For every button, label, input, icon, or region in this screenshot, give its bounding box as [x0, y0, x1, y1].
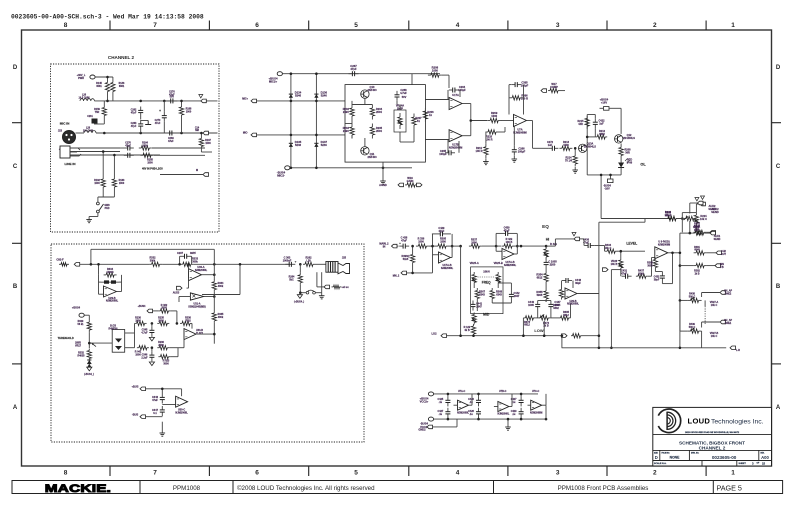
svg-text:.1u: .1u — [512, 413, 516, 416]
svg-text:10006: 10006 — [107, 271, 115, 274]
svg-text:300k: 300k — [192, 260, 198, 263]
svg-text:COMP: COMP — [550, 85, 558, 89]
svg-text:1uF: 1uF — [599, 122, 604, 125]
svg-text:VR25-B: VR25-B — [494, 261, 503, 265]
svg-text:1000uF: 1000uF — [283, 259, 292, 262]
svg-text:SEND: SEND — [714, 238, 721, 241]
svg-text:4.7uF: 4.7uF — [400, 91, 407, 95]
svg-text:10k C: 10k C — [700, 217, 707, 221]
svg-text:OL: OL — [640, 163, 646, 167]
svg-text:NONE: NONE — [670, 456, 681, 460]
svg-text:100pF: 100pF — [521, 84, 529, 88]
svg-text:6081: 6081 — [96, 85, 102, 88]
svg-text:THRESHOLD: THRESHOLD — [58, 336, 74, 340]
svg-text:2N4403: 2N4403 — [367, 155, 377, 159]
svg-text:D: D — [655, 455, 658, 460]
svg-text:GND2: GND2 — [418, 428, 426, 432]
svg-text:.1u: .1u — [512, 401, 516, 404]
svg-text:1006: 1006 — [440, 240, 446, 243]
svg-text:MIC-: MIC- — [243, 132, 248, 135]
svg-text:44R: 44R — [578, 123, 583, 126]
svg-text:6: 6 — [255, 470, 259, 477]
svg-text:1000: 1000 — [142, 144, 148, 147]
svg-text:+: + — [159, 109, 161, 113]
svg-text:5246: 5246 — [321, 94, 327, 98]
svg-text:NJM2068L: NJM2068L — [106, 300, 119, 303]
svg-text:LO2: LO2 — [431, 332, 437, 336]
svg-text:100 R: 100 R — [521, 97, 528, 101]
svg-text:.1u: .1u — [439, 401, 443, 404]
svg-text:B: B — [776, 284, 781, 290]
svg-text:R4NF06: R4NF06 — [109, 327, 119, 330]
svg-text:1006: 1006 — [471, 241, 477, 244]
svg-text:R 42k: R 42k — [550, 242, 557, 246]
svg-text:6040: 6040 — [665, 214, 671, 217]
svg-text:47pF: 47pF — [131, 111, 137, 114]
svg-text:NJM2068L: NJM2068L — [175, 411, 188, 414]
svg-text:5kC: 5kC — [289, 278, 294, 281]
svg-text:3005: 3005 — [647, 264, 653, 267]
svg-text:4: 4 — [456, 22, 460, 29]
svg-text:.1u: .1u — [469, 401, 473, 404]
svg-text:SHEET: SHEET — [739, 463, 747, 465]
svg-text:+BUS: +BUS — [132, 385, 139, 389]
svg-text:3: 3 — [556, 22, 560, 29]
svg-text:100pF: 100pF — [439, 152, 447, 156]
svg-text:47uF: 47uF — [401, 239, 407, 242]
svg-text:10k: 10k — [694, 229, 699, 232]
svg-text:C287: C287 — [177, 252, 184, 255]
svg-text:+BUS4: +BUS4 — [138, 305, 146, 308]
svg-text:J25: J25 — [342, 257, 347, 260]
svg-text:6343: 6343 — [479, 293, 485, 296]
svg-text:0023605-00: 0023605-00 — [712, 455, 737, 460]
svg-text:SSM2164S(MB): SSM2164S(MB) — [188, 305, 206, 308]
svg-text:2004: 2004 — [376, 129, 382, 133]
svg-text:2490: 2490 — [343, 110, 349, 114]
svg-text:L38: L38 — [306, 259, 311, 262]
svg-text:2: 2 — [653, 470, 657, 477]
svg-text:LOUD: LOUD — [688, 417, 711, 426]
svg-text:NJM2068M: NJM2068M — [530, 412, 542, 415]
svg-text:300k: 300k — [150, 260, 156, 263]
svg-text:4.7uF: 4.7uF — [141, 331, 148, 334]
svg-text:R4035: R4035 — [77, 354, 85, 357]
svg-text:1000: 1000 — [563, 144, 569, 147]
svg-text:51k5: 51k5 — [403, 258, 409, 261]
svg-text:CHANNEL 2: CHANNEL 2 — [108, 55, 135, 60]
svg-text:16220 WOOD-RED ROAD NE WOODINV: 16220 WOOD-RED ROAD NE WOODINVILLE, WA 9… — [685, 431, 740, 434]
svg-text:NJM2068L: NJM2068L — [457, 412, 469, 415]
svg-text:1000: 1000 — [94, 182, 100, 185]
svg-text:MIC IN: MIC IN — [60, 122, 70, 126]
svg-text:1uF: 1uF — [548, 144, 553, 147]
svg-text:2008: 2008 — [161, 307, 167, 310]
svg-text:NJM2068L: NJM2068L — [441, 267, 454, 270]
svg-text:3302: 3302 — [553, 307, 559, 310]
svg-text:LINE IN: LINE IN — [64, 162, 76, 166]
svg-text:D: D — [776, 65, 781, 71]
svg-text:GAIN: GAIN — [407, 179, 414, 183]
svg-text:4: 4 — [456, 470, 460, 477]
svg-text:20k8: 20k8 — [638, 272, 644, 275]
svg-text:8: 8 — [64, 470, 68, 477]
svg-text:1006: 1006 — [135, 319, 141, 322]
svg-text:0.1: 0.1 — [153, 412, 157, 415]
svg-text:5: 5 — [354, 22, 358, 29]
svg-text:VR17: VR17 — [75, 344, 82, 347]
svg-text:7: 7 — [153, 22, 157, 29]
svg-text:C14: C14 — [195, 127, 200, 130]
svg-text:PPM1008: PPM1008 — [173, 485, 201, 492]
svg-text:47uF: 47uF — [621, 272, 627, 275]
svg-text:-16V: -16V — [604, 187, 610, 191]
svg-text:PPM1008 Front PCB Assemblies: PPM1008 Front PCB Assemblies — [558, 485, 649, 492]
svg-text:39pF: 39pF — [575, 282, 581, 285]
svg-text:48V IN PHB-L2G8: 48V IN PHB-L2G8 — [142, 168, 163, 171]
svg-text:+16V: +16V — [601, 101, 607, 105]
svg-text:1006: 1006 — [418, 240, 424, 243]
svg-text:100 R: 100 R — [476, 149, 483, 153]
svg-text:EQ: EQ — [542, 224, 549, 229]
svg-text:CH2-F: CH2-F — [56, 259, 64, 262]
svg-text:AUX3: AUX3 — [173, 292, 180, 295]
svg-text:10k C: 10k C — [711, 304, 718, 307]
svg-text:MIC2-: MIC2- — [277, 174, 285, 178]
svg-text:100 R: 100 R — [486, 138, 493, 142]
svg-text:PWR: PWR — [78, 77, 84, 80]
svg-text:2490: 2490 — [343, 129, 349, 133]
svg-text:FB: FB — [720, 266, 723, 269]
svg-text:10k C: 10k C — [711, 335, 718, 338]
svg-text:2N4403LS: 2N4403LS — [623, 137, 635, 140]
svg-text:U7B-C: U7B-C — [499, 390, 507, 393]
svg-text:500 C: 500 C — [689, 295, 696, 298]
svg-text:1000: 1000 — [432, 69, 438, 73]
svg-text:IN: IN — [383, 245, 386, 248]
svg-text:C: C — [13, 164, 18, 170]
svg-text:PAD: PAD — [105, 207, 110, 210]
svg-text:39PF: 39PF — [190, 252, 196, 255]
svg-text:10k B: 10k B — [611, 263, 618, 266]
svg-text:VCC2+: VCC2+ — [420, 400, 429, 404]
svg-text:HI: HI — [546, 238, 550, 242]
svg-text:PAGE 5: PAGE 5 — [717, 484, 742, 493]
svg-text:D-86: D-86 — [627, 161, 633, 164]
svg-text:NJM2068M: NJM2068M — [658, 243, 670, 246]
svg-text:U17A: U17A — [452, 93, 459, 97]
svg-text:1: 1 — [731, 22, 735, 29]
svg-text:B: B — [13, 284, 18, 290]
svg-text:SEND: SEND — [708, 207, 715, 211]
svg-text:4k B: 4k B — [464, 329, 469, 332]
svg-text:2.2uF: 2.2uF — [141, 356, 148, 359]
svg-text:MN_2: MN_2 — [393, 275, 400, 278]
svg-text:6081: 6081 — [119, 85, 125, 88]
svg-text:3: 3 — [556, 470, 560, 477]
svg-text:1000: 1000 — [205, 142, 211, 145]
svg-text:6812: 6812 — [537, 276, 543, 280]
svg-text:NJM2068L: NJM2068L — [195, 269, 208, 272]
svg-text:2200: 2200 — [550, 263, 556, 267]
svg-text:ONE2: ONE2 — [725, 292, 732, 295]
svg-text:D: D — [13, 65, 18, 71]
svg-text:7502: 7502 — [185, 319, 191, 322]
svg-text:0023605-00-A00-SCH.sch-3 - Wed: 0023605-00-A00-SCH.sch-3 - Wed Mar 19 14… — [11, 14, 204, 21]
svg-text:+BUS4: +BUS4 — [72, 307, 81, 310]
svg-text:56 k1: 56 k1 — [78, 323, 85, 326]
svg-text:47pF: 47pF — [350, 67, 357, 71]
svg-text:FSCM NO.: FSCM NO. — [662, 452, 671, 454]
svg-text:1000: 1000 — [147, 161, 153, 164]
svg-text:MIC+: MIC+ — [242, 98, 248, 101]
svg-text:Technologies Inc.: Technologies Inc. — [711, 419, 764, 426]
svg-text:A00: A00 — [761, 455, 769, 460]
svg-text:.1u: .1u — [439, 413, 443, 416]
svg-text:.1u: .1u — [469, 413, 473, 416]
svg-text:NJM2068M: NJM2068M — [513, 131, 526, 135]
svg-text:2847: 2847 — [514, 295, 520, 298]
svg-text:MIC2+: MIC2+ — [269, 80, 278, 84]
svg-text:47pF: 47pF — [438, 230, 444, 233]
svg-text:500 C: 500 C — [689, 326, 696, 329]
svg-text:2: 2 — [653, 22, 657, 29]
svg-text:7: 7 — [153, 470, 157, 477]
svg-text:50V: 50V — [170, 96, 175, 99]
svg-text:1k B: 1k B — [694, 272, 699, 275]
svg-text:2004: 2004 — [376, 110, 382, 114]
svg-text:A: A — [13, 405, 18, 411]
svg-text:1: 1 — [731, 470, 735, 477]
svg-text:M: M — [196, 169, 198, 172]
svg-text:LEVEL: LEVEL — [626, 241, 637, 245]
svg-text:1000: 1000 — [186, 110, 192, 113]
svg-text:2N4403: 2N4403 — [367, 88, 377, 92]
svg-text:NJM2068M: NJM2068M — [449, 146, 462, 150]
svg-text:300k: 300k — [218, 316, 224, 319]
svg-text:75R: 75R — [95, 111, 100, 114]
svg-text:-BUS: -BUS — [132, 413, 139, 417]
svg-text:47pF: 47pF — [125, 144, 131, 147]
svg-text:6862: 6862 — [599, 133, 605, 136]
svg-text:100pF: 100pF — [518, 150, 526, 154]
svg-text:5905: 5905 — [537, 293, 543, 297]
svg-text:ONE1: ONE1 — [725, 322, 732, 325]
svg-text:FREQ: FREQ — [482, 281, 491, 285]
svg-text:NJM2068L: NJM2068L — [567, 303, 579, 306]
svg-text:LOW: LOW — [534, 328, 544, 333]
svg-text:75 1/4: 75 1/4 — [565, 159, 573, 162]
svg-text:5246: 5246 — [295, 94, 301, 98]
svg-text:+: + — [399, 241, 401, 245]
svg-text:A: A — [776, 405, 781, 411]
svg-text:+u/ uu: +u/ uu — [341, 286, 349, 289]
svg-text:47uF: 47uF — [155, 122, 161, 125]
svg-text:L-R: L-R — [736, 349, 740, 352]
svg-text:47uF: 47uF — [152, 399, 158, 402]
svg-text:2008: 2008 — [158, 319, 164, 322]
svg-text:39pF: 39pF — [654, 278, 660, 281]
svg-text:C: C — [776, 164, 781, 170]
svg-text:47pF: 47pF — [504, 229, 510, 232]
svg-text:SCALE N.A.: SCALE N.A. — [654, 462, 667, 465]
svg-text:10k C: 10k C — [605, 247, 612, 250]
svg-text:100pF: 100pF — [458, 88, 466, 92]
svg-text:U7A-C: U7A-C — [458, 390, 466, 393]
svg-text:8: 8 — [64, 22, 68, 29]
svg-text:47uF: 47uF — [168, 140, 174, 143]
svg-text:50V: 50V — [402, 95, 407, 99]
svg-text:6343: 6343 — [496, 293, 502, 296]
svg-text:2008: 2008 — [158, 344, 164, 347]
svg-text:(-BUS4_): (-BUS4_) — [84, 373, 94, 376]
svg-text:47pF: 47pF — [131, 125, 137, 128]
svg-text:+: + — [295, 260, 297, 264]
svg-text:NJM2068L: NJM2068L — [497, 413, 509, 416]
svg-text:36R: 36R — [625, 151, 630, 154]
svg-text:C261: C261 — [87, 116, 93, 118]
svg-text:J23: J23 — [58, 130, 63, 133]
svg-text:(+BUS4_): (+BUS4_) — [294, 301, 305, 304]
svg-text:5246: 5246 — [295, 143, 301, 147]
svg-text:U7C-C: U7C-C — [532, 390, 540, 393]
svg-text:MACKIE.: MACKIE. — [45, 482, 111, 495]
svg-text:2N3904LS: 2N3904LS — [584, 145, 596, 148]
svg-text:1000: 1000 — [491, 114, 497, 118]
svg-text:5246: 5246 — [321, 143, 327, 147]
svg-text:6040: 6040 — [694, 249, 700, 252]
svg-text:1005: 1005 — [528, 303, 534, 307]
svg-text:6: 6 — [255, 22, 259, 29]
svg-text:DWG. NO.: DWG. NO. — [691, 452, 700, 454]
svg-text:300k: 300k — [218, 285, 224, 288]
svg-text:NJM2068L: NJM2068L — [504, 264, 517, 267]
svg-text:VR25-A: VR25-A — [470, 261, 479, 265]
svg-text:AGND: AGND — [379, 183, 387, 187]
svg-text:1000: 1000 — [119, 182, 125, 185]
svg-text:©2008 LOUD Technologies Inc. A: ©2008 LOUD Technologies Inc. All rights … — [237, 485, 375, 492]
svg-text:6812: 6812 — [524, 324, 530, 327]
svg-text:3006: 3006 — [163, 362, 169, 365]
svg-text:CHANNEL 2: CHANNEL 2 — [699, 446, 726, 451]
svg-text:10k½: 10k½ — [483, 270, 490, 274]
svg-text:5: 5 — [354, 470, 358, 477]
svg-text:NM: NM — [195, 130, 199, 132]
svg-text:OUT: OUT — [721, 253, 727, 256]
svg-text:15: 15 — [762, 461, 766, 465]
svg-text:6812: 6812 — [563, 314, 569, 317]
svg-text:MID: MID — [483, 313, 490, 317]
svg-text:100 B: 100 B — [506, 241, 513, 244]
